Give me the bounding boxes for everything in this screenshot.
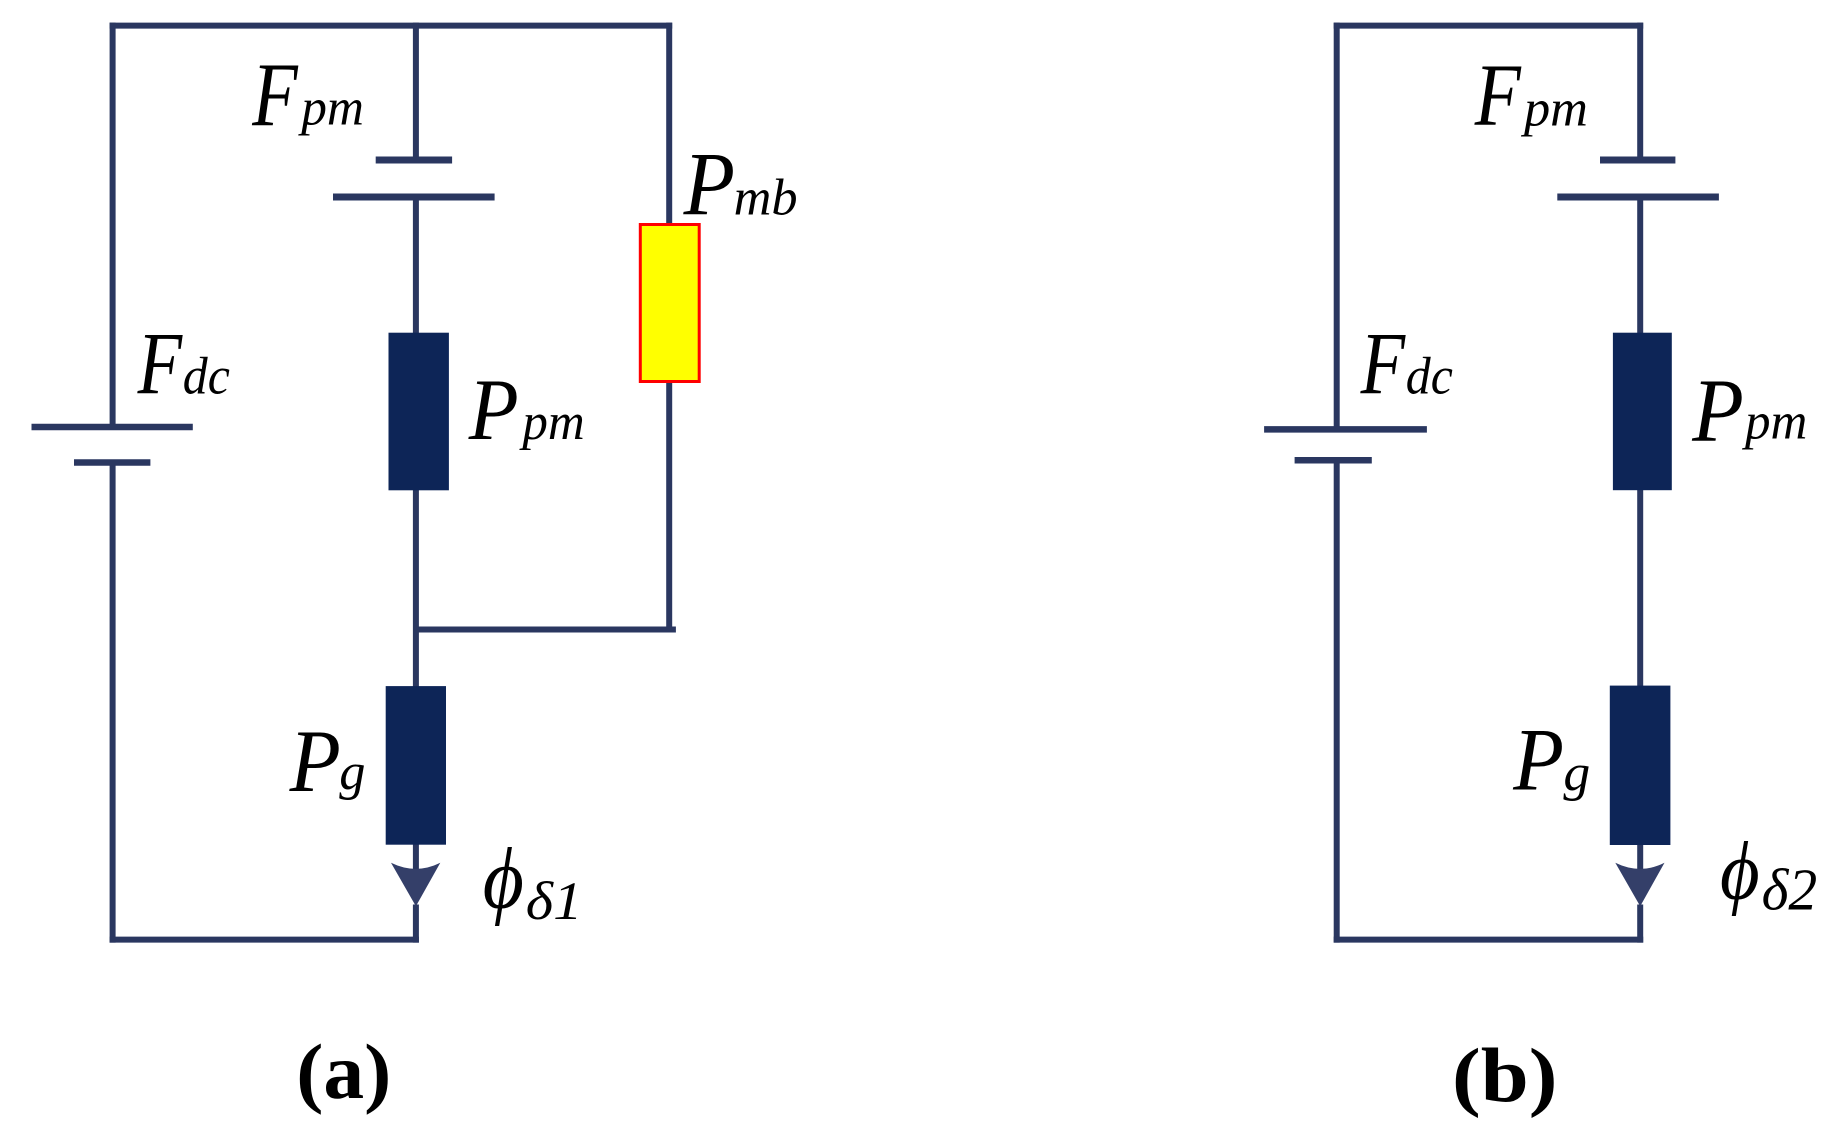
wire: fig(a) middle branch between Ppm and Pg through junction: [413, 487, 419, 689]
flux arrow head (b): [1615, 863, 1664, 906]
wire: fig(b) right branch stub from Pg into arrow: [1637, 842, 1643, 872]
wire: fig(b) right branch between Ppm and Pg: [1637, 487, 1643, 689]
svg-text:P: P: [1691, 360, 1744, 460]
wire: fig(a) left side lower (from Fdc battery): [110, 463, 116, 943]
wire: fig(b) top side: [1334, 23, 1644, 29]
svg-text:δ2: δ2: [1762, 857, 1818, 923]
permeance Pmb (a): yellow rectangle with red border: [640, 225, 699, 382]
svg-text:ϕ: ϕ: [483, 830, 524, 926]
svg-text:mb: mb: [734, 170, 798, 227]
battery Fdc (a): long plate: [32, 424, 193, 431]
svg-text:P: P: [468, 361, 519, 459]
permeance Pg (a): filled rectangle: [386, 686, 446, 845]
wire: fig(a) junction horizontal wire (node joining Pmb branch): [413, 627, 676, 633]
wire: fig(a) middle branch top (to Fpm battery): [413, 23, 419, 160]
svg-text:F: F: [1474, 46, 1522, 144]
wire: fig(a) middle branch between Fpm battery and Ppm: [413, 197, 419, 336]
svg-text:pm: pm: [518, 393, 584, 451]
battery Fdc (a): short plate: [74, 459, 150, 466]
svg-text:(b): (b): [1452, 1032, 1558, 1118]
permeance Pg (b): filled rectangle: [1610, 686, 1671, 845]
wire: fig(a) top side: [110, 23, 673, 29]
battery Fpm (b): short plate: [1600, 157, 1675, 164]
wire: fig(b) right branch stub below arrow to bottom side: [1637, 905, 1643, 943]
wire: fig(a) right branch upper (to Pmb): [666, 23, 672, 226]
wire: fig(b) left side upper (to Fdc battery): [1334, 23, 1340, 430]
battery Fpm (a): long plate: [333, 194, 495, 201]
battery Fpm (a): short plate: [376, 157, 452, 164]
svg-text:pm: pm: [297, 79, 364, 136]
wire: fig(a) left side upper (to Fdc battery): [110, 23, 116, 427]
svg-text:P: P: [1512, 710, 1564, 809]
svg-text:F: F: [1360, 314, 1407, 412]
wire: fig(b) left side lower (from Fdc battery): [1334, 460, 1340, 942]
svg-text:g: g: [339, 743, 365, 801]
battery Fpm (b): long plate: [1557, 194, 1719, 201]
svg-text:(a): (a): [296, 1028, 391, 1116]
wire: fig(a) bottom side: [110, 937, 419, 943]
wire: fig(b) bottom side: [1334, 937, 1644, 943]
svg-text:pm: pm: [1741, 393, 1807, 451]
wire: fig(a) right branch lower (Pmb to junction): [666, 380, 672, 633]
svg-text:F: F: [137, 314, 184, 412]
svg-text:δ1: δ1: [526, 872, 583, 932]
svg-text:g: g: [1563, 745, 1590, 802]
wire: fig(b) right branch between Fpm battery and Ppm: [1637, 197, 1643, 336]
svg-text:pm: pm: [1520, 80, 1588, 137]
flux arrow head (a): [391, 863, 440, 906]
wire: fig(b) right branch top (to Fpm battery): [1637, 23, 1643, 160]
battery Fdc (b): short plate: [1295, 457, 1372, 464]
svg-text:P: P: [683, 135, 735, 234]
battery Fdc (b): long plate: [1264, 426, 1427, 433]
permeance Ppm (a): filled rectangle: [389, 333, 449, 491]
svg-text:F: F: [251, 45, 299, 146]
svg-text:ϕ: ϕ: [1720, 826, 1760, 917]
svg-text:P: P: [289, 712, 341, 811]
svg-text:dc: dc: [183, 347, 230, 406]
svg-text:dc: dc: [1406, 347, 1453, 406]
wire: fig(a) middle branch stub below arrow to bottom side: [413, 905, 419, 943]
wire: fig(a) middle branch stub from Pg into arrow: [413, 842, 419, 872]
permeance Ppm (b): filled rectangle: [1613, 333, 1672, 491]
